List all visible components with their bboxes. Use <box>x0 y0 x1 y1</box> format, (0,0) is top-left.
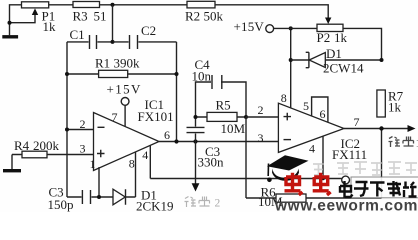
ground (left of P1) <box>2 35 18 38</box>
svg-text:1k: 1k <box>388 100 402 115</box>
node: pin8 / +15V rail <box>289 26 293 30</box>
node: output / C1C2R1 feedback <box>174 139 178 143</box>
label: output 2 (faded) <box>185 197 210 208</box>
resistor R7 1k <box>377 88 404 117</box>
svg-text:R2: R2 <box>185 9 200 24</box>
svg-text:+15V: +15V <box>107 82 142 97</box>
svg-text:+15V: +15V <box>234 19 265 34</box>
watermark: white backing box <box>351 177 418 198</box>
svg-text:R1: R1 <box>95 56 110 71</box>
wire: IC2 pin 2 input <box>246 116 278 118</box>
node: pin1 / bottom wire <box>97 195 101 199</box>
+15V supply for IC1 <box>107 82 142 127</box>
svg-text:R3: R3 <box>73 8 88 23</box>
svg-text:1: 1 <box>90 157 96 171</box>
wire: IC1 pin 8 drop <box>135 152 137 197</box>
wire: IC1 pin 2 input <box>67 129 94 131</box>
svg-text:330n: 330n <box>198 155 225 170</box>
wire: right feedback vertical <box>176 42 178 142</box>
capacitor C3 150p <box>48 185 114 212</box>
zener D1 2CW14 <box>291 46 382 75</box>
wire: V- rail (pins 4) with terminal <box>150 176 349 184</box>
svg-text:1k: 1k <box>43 19 57 34</box>
svg-text:6: 6 <box>164 128 170 142</box>
capacitor C4 10n <box>192 57 247 117</box>
wire: IC2 pins 5-6 strap <box>312 97 328 123</box>
wire: left feedback vertical <box>66 42 68 197</box>
svg-text:150p: 150p <box>48 197 74 212</box>
wire: top rail from P1 to P2 wiper <box>49 5 332 24</box>
op-amp U1 IC1 FX101 <box>80 97 174 171</box>
svg-text:8: 8 <box>281 91 287 105</box>
svg-text:P2: P2 <box>317 30 331 45</box>
svg-text:2: 2 <box>215 198 221 210</box>
svg-text:1k: 1k <box>334 30 348 45</box>
label: output 1 (dark) <box>389 137 414 148</box>
comparator U2 IC2 FX111 <box>258 91 368 162</box>
resistor R6 10M <box>246 184 382 209</box>
node: pin2 / feedback <box>65 128 69 132</box>
node: zener / P2 riser <box>380 58 384 62</box>
resistor R1 390k <box>67 56 177 78</box>
svg-text:www.eeworm.com: www.eeworm.com <box>274 198 418 213</box>
potentiometer P2 1k <box>317 24 382 60</box>
resistor R3 51 <box>73 2 107 24</box>
watermark: red chongchong characters <box>285 173 331 195</box>
svg-text:FX101: FX101 <box>138 109 174 124</box>
node: top rail junction <box>111 3 115 7</box>
potentiometer P1 1k <box>10 2 57 35</box>
node: output 1 <box>379 126 383 130</box>
svg-text:C2: C2 <box>141 23 156 38</box>
wire: IC2 pin 4 drop to V- rail <box>322 136 324 178</box>
svg-text:C1: C1 <box>70 27 85 42</box>
capacitor C1 <box>67 27 112 49</box>
svg-text:51: 51 <box>94 8 107 23</box>
node: pin8 / zener wire <box>289 58 293 62</box>
ground (R4) <box>3 169 21 172</box>
resistor R5 10M <box>196 97 247 136</box>
svg-text:R5: R5 <box>216 97 231 112</box>
svg-text:FX111: FX111 <box>332 147 367 162</box>
node: C1-C2 midpoint <box>111 40 115 44</box>
capacitor C2 <box>113 23 177 49</box>
wire: hysteresis drop to R6 <box>245 117 247 198</box>
svg-text:10n: 10n <box>192 69 212 84</box>
node: R1 left <box>65 72 69 76</box>
wire: IC1 pin 1 drop <box>98 167 100 197</box>
watermark: graduation cap logo <box>267 155 309 182</box>
wire: IC1 output pin 6 to IC2 pin 3 <box>159 141 278 143</box>
diode D1 2CK19 <box>113 188 174 214</box>
watermark: faint site name band <box>313 162 417 175</box>
svg-text:50k: 50k <box>204 9 224 24</box>
svg-text:7: 7 <box>354 115 360 129</box>
capacitor C3 330n <box>187 117 225 170</box>
svg-text:2: 2 <box>80 117 86 131</box>
+15V supply for IC2 <box>234 19 318 34</box>
node: R1 right <box>175 72 179 76</box>
resistor R2 50k <box>185 1 224 23</box>
node: R5 right / pin2 IC2 <box>244 115 248 119</box>
svg-text:2: 2 <box>258 103 264 117</box>
wire: IC2 pin 7 output <box>344 115 416 132</box>
node: P1 junction <box>8 21 12 25</box>
svg-text:10M: 10M <box>221 121 246 136</box>
svg-text:D1: D1 <box>326 46 342 61</box>
svg-text:2CW14: 2CW14 <box>323 61 364 76</box>
node: R5 left <box>194 115 198 119</box>
wire: drop from top rail to C1-C2 midpoint <box>112 5 114 42</box>
watermark: site name dark characters <box>340 181 417 198</box>
wire: R6 to output riser <box>381 129 383 199</box>
svg-text:2CK19: 2CK19 <box>136 198 174 212</box>
svg-text:6: 6 <box>320 107 326 121</box>
wire: IC2 pin 8 to +15V <box>290 28 292 108</box>
svg-text:4: 4 <box>309 142 315 156</box>
svg-text:3: 3 <box>258 131 264 145</box>
resistor R4 200k <box>12 138 94 169</box>
node: output / C3 330n and output2 <box>193 139 197 143</box>
wire: output 2 tap with arrow <box>192 142 200 192</box>
svg-text:4: 4 <box>142 148 148 162</box>
wire: IC1 pin 4 drop <box>149 145 151 178</box>
svg-text:5: 5 <box>303 99 309 113</box>
svg-text:3: 3 <box>80 142 86 156</box>
svg-text:8: 8 <box>129 156 135 170</box>
svg-text:390k: 390k <box>114 56 141 71</box>
